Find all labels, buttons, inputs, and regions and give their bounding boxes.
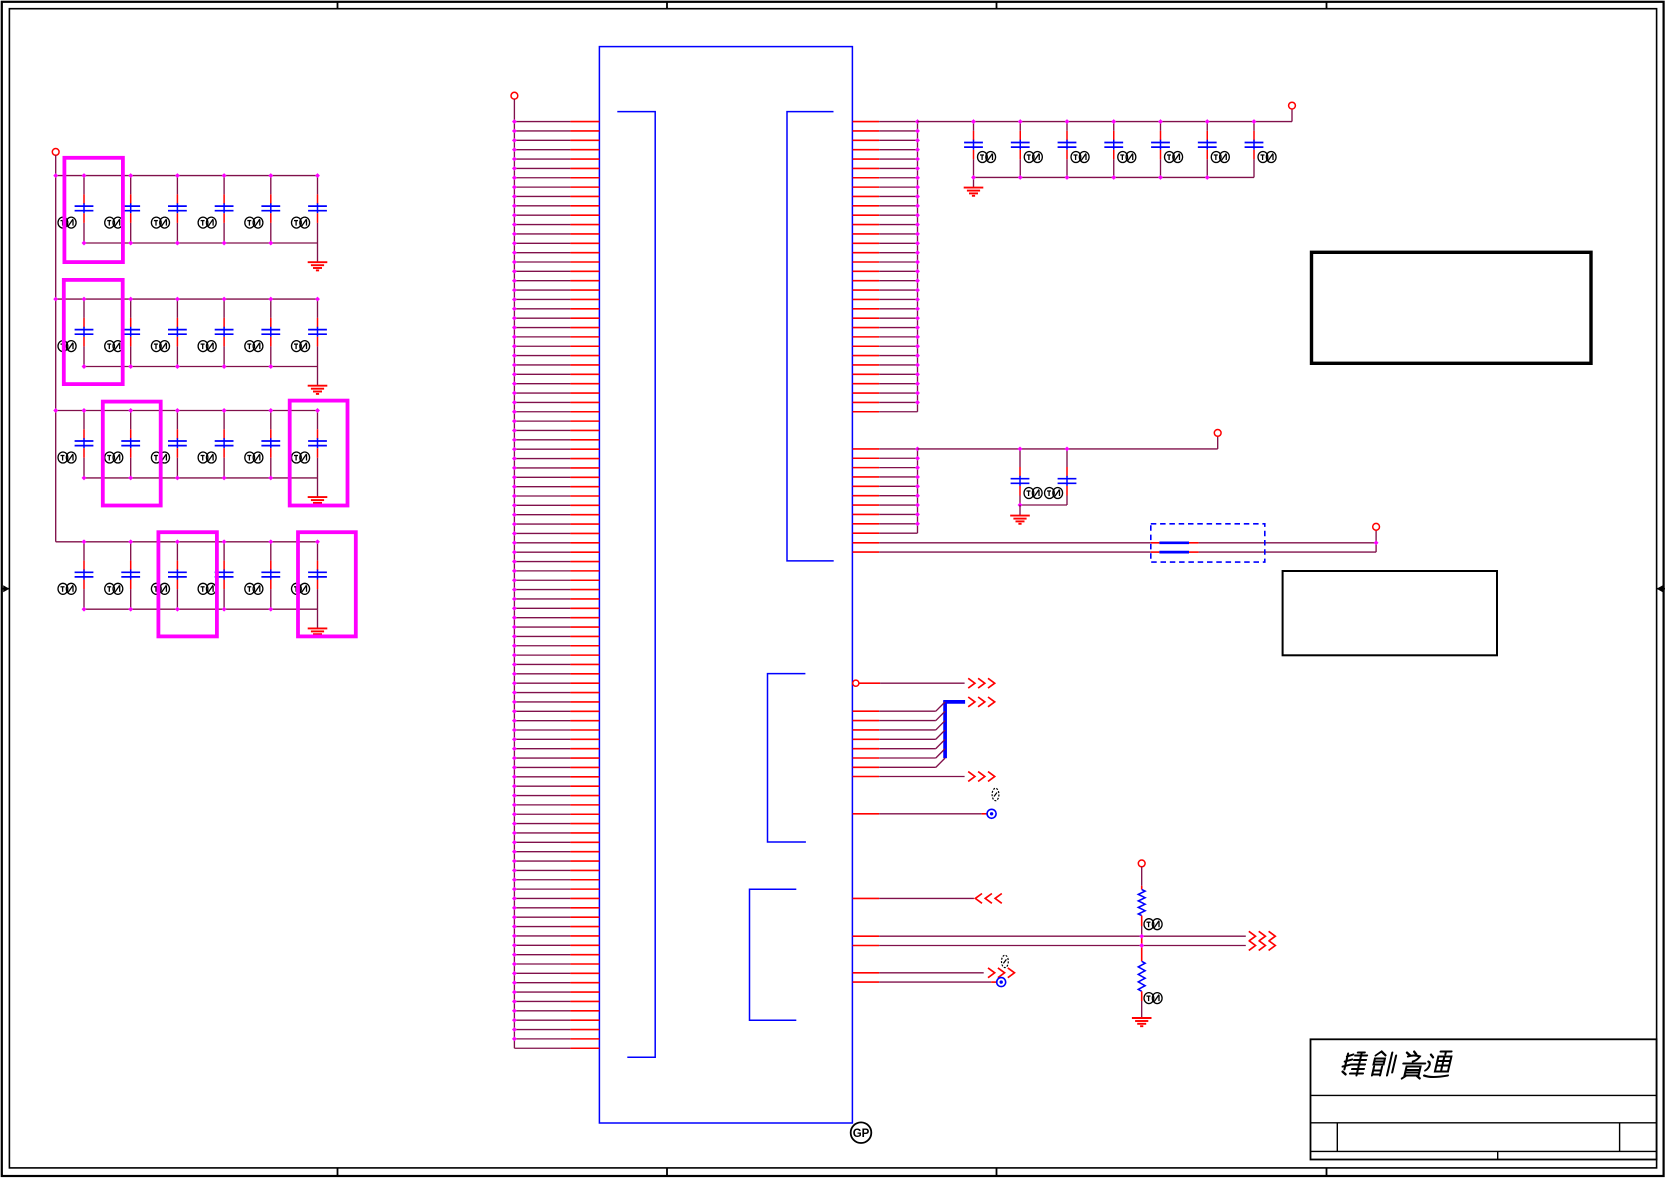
capacitor C19 bbox=[58, 542, 93, 609]
wire U1 left pin 38 bbox=[512, 465, 599, 470]
wire U1 right pin group1 12 bbox=[853, 222, 920, 227]
highlight box 5 bbox=[158, 532, 217, 636]
junction bank row3 feed bbox=[53, 408, 58, 413]
wire U1 left pin 40 bbox=[512, 484, 599, 489]
wire U1 right pin group1 31 bbox=[853, 400, 920, 405]
wire pair1 to filter bbox=[879, 542, 1151, 544]
wire U1 left pin 49 bbox=[512, 568, 599, 573]
wire right bus 2 vertical bbox=[917, 449, 919, 533]
IC U1 body outline bbox=[599, 47, 852, 1123]
wire U1 right pin group2 7 bbox=[853, 503, 920, 508]
junction C5 top bbox=[268, 173, 273, 178]
wire U1 right pin group1 7 bbox=[853, 175, 920, 180]
capacitor C109 bbox=[1045, 449, 1077, 505]
wire U1 left pin 7 bbox=[512, 175, 599, 180]
wire U1 left pin 30 bbox=[512, 391, 599, 396]
wire U1 left pin 82 bbox=[512, 877, 599, 882]
wire U1 right pin group3 6 bbox=[853, 749, 946, 758]
wire U1 left pin 60 bbox=[512, 671, 599, 676]
wire U1 left pin 83 bbox=[512, 887, 599, 892]
capacitor C11 bbox=[245, 299, 280, 366]
junction C22 bottom bbox=[222, 607, 227, 612]
capacitor C6 bbox=[292, 176, 327, 243]
highlight box 4 bbox=[290, 401, 348, 506]
wire U1 left pin 76 bbox=[512, 821, 599, 826]
junction C11 top bbox=[268, 297, 273, 302]
junction C8 bottom bbox=[128, 364, 133, 369]
wire U1 left pin 22 bbox=[512, 316, 599, 321]
wire U1 left pin 4 bbox=[512, 147, 599, 152]
title block company logotype bbox=[1340, 1052, 1454, 1079]
wire U1 right pin group1 9 bbox=[853, 194, 920, 199]
wire U1 left pin 80 bbox=[512, 859, 599, 864]
wire U1 left pin 32 bbox=[512, 409, 599, 414]
junction C105 bottom bbox=[1158, 175, 1163, 180]
wire U1 left pin 65 bbox=[512, 718, 599, 723]
wire U1 right pin long2 bbox=[853, 945, 1246, 947]
wire U1 left pin 9 bbox=[512, 194, 599, 199]
junction pair terminal bbox=[1374, 540, 1379, 545]
wire bank row1 top rail bbox=[56, 175, 318, 177]
junction C18 top bbox=[315, 408, 320, 413]
capacitor C24 bbox=[292, 542, 327, 609]
junction C8 top bbox=[128, 297, 133, 302]
capacitor C5 bbox=[245, 176, 280, 243]
wire bank row3 bottom rail bbox=[84, 477, 318, 479]
wire U1 right pin group1 29 bbox=[853, 381, 920, 386]
junction C104 bottom bbox=[1111, 175, 1116, 180]
junction C14 top bbox=[128, 408, 133, 413]
wire pair1 to terminal bbox=[1199, 542, 1377, 544]
wire U1 left pin 20 bbox=[512, 297, 599, 302]
wire bank row4 ground lead bbox=[317, 609, 319, 628]
wire U1 right pin group3 2 bbox=[853, 711, 946, 720]
wire bank row2 top rail bbox=[56, 298, 318, 300]
IC U1 inner right pin bracket 1 bbox=[787, 112, 834, 561]
wire U1 left pin 81 bbox=[512, 868, 599, 873]
ferrite bead FB2 bbox=[1151, 551, 1199, 553]
wire U1 left pin 94 bbox=[512, 990, 599, 995]
wire left bus vertical bbox=[513, 99, 515, 1048]
net label small glyph 2 bbox=[1002, 955, 1009, 967]
junction C9 top bbox=[175, 297, 180, 302]
junction C106 bottom bbox=[1205, 175, 1210, 180]
junction C5 bottom bbox=[268, 241, 273, 246]
junction C105 top bbox=[1158, 119, 1163, 124]
junction C2 bottom bbox=[128, 241, 133, 246]
bus group3 vertical bbox=[943, 701, 947, 759]
junction C15 top bbox=[175, 408, 180, 413]
highlight box 6 bbox=[298, 532, 356, 636]
wire U1 right pin group1 5 bbox=[853, 157, 920, 162]
off-page connector long2 bbox=[1249, 941, 1276, 951]
capacitor C16 bbox=[198, 411, 233, 478]
junction C3 top bbox=[175, 173, 180, 178]
wire U1 left pin 45 bbox=[512, 531, 599, 536]
wire U1 left pin 67 bbox=[512, 737, 599, 742]
wire U1 left pin 6 bbox=[512, 166, 599, 171]
capacitor C9 bbox=[151, 299, 186, 366]
wire U1 left pin 85 bbox=[512, 905, 599, 910]
wire U1 right pin group1 18 bbox=[853, 278, 920, 283]
wire U1 left pin 90 bbox=[512, 952, 599, 957]
capacitor C18 bbox=[292, 411, 327, 478]
off-page connector left row bbox=[975, 894, 1002, 904]
junction C20 bottom bbox=[128, 607, 133, 612]
wire U1 right pin chevron row bottom bbox=[853, 972, 984, 974]
wire U1 left pin 8 bbox=[512, 185, 599, 190]
wire bank row2 bottom rail bbox=[84, 366, 318, 368]
wire U1 left pin 69 bbox=[512, 756, 599, 761]
junction C13 bottom bbox=[82, 475, 87, 480]
wire bank row1 bottom rail bbox=[84, 242, 318, 244]
junction C104 top bbox=[1111, 119, 1116, 124]
wire R1 to R2 bbox=[1141, 916, 1143, 962]
wire U1 left pin 39 bbox=[512, 475, 599, 480]
capacitor C105 bbox=[1151, 122, 1183, 178]
wire U1 left pin 28 bbox=[512, 372, 599, 377]
junction bank row1 feed bbox=[53, 173, 58, 178]
wire U1 left pin 2 bbox=[512, 129, 599, 134]
bus group3 horizontal out bbox=[943, 700, 965, 704]
junction C19 bottom bbox=[82, 607, 87, 612]
wire U1 left pin 56 bbox=[512, 634, 599, 639]
net label small glyph 1 bbox=[992, 788, 999, 800]
off-page connector bus out bbox=[968, 697, 995, 707]
wire R2 to ground bbox=[1141, 991, 1143, 1018]
wire U1 left pin 19 bbox=[512, 288, 599, 293]
wire U1 right pin group1 28 bbox=[853, 372, 920, 377]
wire U1 left pin 26 bbox=[512, 353, 599, 358]
junction C24 top bbox=[315, 539, 320, 544]
wire ground lead mid right bbox=[1019, 505, 1021, 515]
capacitor C3 bbox=[151, 176, 186, 243]
wire U1 right pin group2 3 bbox=[853, 465, 920, 470]
wire U1 right pin group3 5 bbox=[853, 739, 946, 748]
junction C10 bottom bbox=[222, 364, 227, 369]
capacitor C106 bbox=[1198, 122, 1230, 178]
capacitor C23 bbox=[245, 542, 280, 609]
wire bank row1 ground lead bbox=[317, 243, 319, 262]
off-page connector row1 bbox=[968, 678, 995, 688]
dashed option box bbox=[1151, 524, 1265, 562]
wire U1 left pin 3 bbox=[512, 138, 599, 143]
junction C108 top bbox=[1018, 446, 1023, 451]
wire U1 right pin group1 24 bbox=[853, 334, 920, 339]
junction C3 bottom bbox=[175, 241, 180, 246]
wire U1 right pin group1 17 bbox=[853, 269, 920, 274]
wire U1 left pin 55 bbox=[512, 625, 599, 630]
border centre arrow left bbox=[1, 585, 9, 592]
wire U1 left pin 11 bbox=[512, 213, 599, 218]
wire U1 right pin long1 bbox=[853, 935, 1246, 937]
wire U1 left pin 95 bbox=[512, 999, 599, 1004]
IC U1 marker GP bbox=[851, 1122, 872, 1143]
wire U1 left pin 14 bbox=[512, 241, 599, 246]
junction C14 bottom bbox=[128, 475, 133, 480]
junction C9 bottom bbox=[175, 364, 180, 369]
junction C106 top bbox=[1205, 119, 1210, 124]
label R2 bbox=[1144, 993, 1162, 1004]
junction C4 bottom bbox=[222, 241, 227, 246]
wire U1 left pin 21 bbox=[512, 306, 599, 311]
test point target 1 bbox=[987, 809, 996, 818]
junction C22 top bbox=[222, 539, 227, 544]
capacitor C102 bbox=[1011, 122, 1043, 178]
wire U1 left pin 10 bbox=[512, 203, 599, 208]
wire left bank feed vertical bbox=[55, 155, 57, 542]
wire U1 left pin 42 bbox=[512, 503, 599, 508]
IC U1 inner left pin bracket bbox=[617, 112, 655, 1058]
wire U1 right pin group2 2 bbox=[853, 456, 920, 461]
IC U1 inner right pin bracket 2 bbox=[768, 674, 806, 842]
wire pair2 riser bbox=[1375, 530, 1377, 552]
junction C4 top bbox=[222, 173, 227, 178]
capacitor C21 bbox=[151, 542, 186, 609]
wire U1 right pin group3 4 bbox=[853, 730, 946, 739]
wire U1 right pin group1 15 bbox=[853, 250, 920, 255]
junction C2 top bbox=[128, 173, 133, 178]
capacitor C14 bbox=[105, 411, 140, 478]
wire U1 right pin group1 1 bbox=[853, 119, 920, 124]
wire U1 right pin group1 23 bbox=[853, 325, 920, 330]
wire U1 left pin 77 bbox=[512, 831, 599, 836]
wire U1 left pin 88 bbox=[512, 933, 599, 938]
junction ground top right bbox=[971, 175, 976, 180]
highlight box 3 bbox=[103, 402, 161, 506]
wire U1 right pin group2 4 bbox=[853, 475, 920, 480]
junction C19 top bbox=[82, 539, 87, 544]
capacitor C1 bbox=[58, 176, 93, 243]
wire U1 right pin group1 26 bbox=[853, 353, 920, 358]
junction C1 bottom bbox=[82, 241, 87, 246]
title block frame bbox=[1311, 1039, 1657, 1159]
wire U1 left pin 61 bbox=[512, 681, 599, 686]
wire U1 right pin group1 10 bbox=[853, 203, 920, 208]
ground bank row4 bbox=[308, 628, 328, 636]
capacitor C108 bbox=[1011, 449, 1043, 505]
wire U1 left pin 52 bbox=[512, 597, 599, 602]
wire U1 right pin group2 8 bbox=[853, 512, 920, 517]
terminal pullup top bbox=[1138, 860, 1145, 867]
wire U1 right pin group1 27 bbox=[853, 363, 920, 368]
wire U1 left pin 12 bbox=[512, 222, 599, 227]
junction C12 top bbox=[315, 297, 320, 302]
wire U1 left pin 47 bbox=[512, 550, 599, 555]
ground mid right bbox=[1010, 516, 1030, 524]
junction C15 bottom bbox=[175, 475, 180, 480]
wire U1 left pin 37 bbox=[512, 456, 599, 461]
capacitor C7 bbox=[58, 299, 93, 366]
wire U1 left pin 51 bbox=[512, 587, 599, 592]
wire U1 left pin 74 bbox=[512, 802, 599, 807]
wire U1 left pin 13 bbox=[512, 231, 599, 236]
capacitor C4 bbox=[198, 176, 233, 243]
wire U1 right pin group1 22 bbox=[853, 316, 920, 321]
terminal pair right bbox=[1373, 523, 1380, 530]
junction C16 bottom bbox=[222, 475, 227, 480]
wire U1 left pin 29 bbox=[512, 381, 599, 386]
highlight box 1 bbox=[64, 158, 123, 262]
wire U1 right pin group1 14 bbox=[853, 241, 920, 246]
wire C109 bottom to C108 bbox=[1020, 504, 1067, 506]
wire U1 left pin 96 bbox=[512, 1008, 599, 1013]
wire U1 left pin 89 bbox=[512, 943, 599, 948]
wire U1 left pin 1 bbox=[512, 119, 599, 124]
wire U1 left pin 99 bbox=[512, 1036, 599, 1041]
wire bank row2 ground lead bbox=[317, 367, 319, 386]
wire U1 left pin 97 bbox=[512, 1018, 599, 1023]
wire U1 left pin 17 bbox=[512, 269, 599, 274]
wire U1 right pin group1 16 bbox=[853, 260, 920, 265]
capacitor C20 bbox=[105, 542, 140, 609]
wire U1 left pin 84 bbox=[512, 896, 599, 901]
junction C23 bottom bbox=[268, 607, 273, 612]
wire U1 right pin group1 3 bbox=[853, 138, 920, 143]
wire U1 right pin group1 30 bbox=[853, 391, 920, 396]
capacitor C101 bbox=[964, 122, 996, 178]
wire pair2 to terminal bbox=[1199, 551, 1377, 553]
wire U1 left pin 71 bbox=[512, 774, 599, 779]
wire U1 left pin 54 bbox=[512, 615, 599, 620]
terminal VCC left bank bbox=[52, 149, 59, 156]
wire bank row4 bottom rail bbox=[84, 608, 318, 610]
off-page connector row group3 8 bbox=[968, 772, 995, 782]
off-page connector long1 bbox=[1249, 931, 1276, 941]
junction C101 top bbox=[971, 119, 976, 124]
annotation box 1 bbox=[1312, 252, 1592, 363]
wire U1 left pin 73 bbox=[512, 793, 599, 798]
junction C102 bottom bbox=[1018, 175, 1023, 180]
capacitor C104 bbox=[1104, 122, 1136, 178]
wire U1 left pin 91 bbox=[512, 962, 599, 967]
wire U1 left pin 50 bbox=[512, 578, 599, 583]
wire U1 left pin 34 bbox=[512, 428, 599, 433]
wire U1 left pin 15 bbox=[512, 250, 599, 255]
capacitor C22 bbox=[198, 542, 233, 609]
highlight box 2 bbox=[64, 280, 123, 384]
wire ground lead top right bbox=[973, 177, 975, 187]
wire U1 left pin 66 bbox=[512, 728, 599, 733]
IC U1 inner right pin bracket 3 bbox=[750, 889, 797, 1020]
wire U1 left pin 33 bbox=[512, 419, 599, 424]
wire U1 left pin 68 bbox=[512, 746, 599, 751]
junction C1 top bbox=[82, 173, 87, 178]
wire U1 right pin group1 2 bbox=[853, 129, 920, 134]
junction C107 top bbox=[1252, 119, 1257, 124]
wire U1 right pin target row 2 bbox=[853, 981, 997, 983]
wire U1 right pin group1 6 bbox=[853, 166, 920, 171]
wire U1 right pin group1 20 bbox=[853, 297, 920, 302]
wire U1 left pin 75 bbox=[512, 812, 599, 817]
wire U1 right pin group1 4 bbox=[853, 147, 920, 152]
wire U1 left pin 23 bbox=[512, 325, 599, 330]
wire U1 right pin group3 1 bbox=[853, 702, 946, 711]
terminal VCC left pin bus bbox=[511, 92, 518, 99]
wire U1 right pin group1 11 bbox=[853, 213, 920, 218]
wire U1 left pin 86 bbox=[512, 915, 599, 920]
wire bank row3 top rail bbox=[56, 410, 318, 412]
wire U1 right pair1 pin bbox=[853, 542, 880, 544]
terminal VCC top right bbox=[1289, 102, 1296, 109]
resistor R2 bbox=[1138, 961, 1145, 991]
capacitor C13 bbox=[58, 411, 93, 478]
wire bank row3 ground lead bbox=[317, 478, 319, 497]
junction C21 bottom bbox=[175, 607, 180, 612]
junction C20 top bbox=[128, 539, 133, 544]
wire U1 left pin 92 bbox=[512, 971, 599, 976]
ground top right bbox=[964, 188, 984, 196]
wire terminal stub mid right bbox=[1217, 436, 1219, 449]
wire U1 left pin 78 bbox=[512, 840, 599, 845]
wire U1 right pin group2 1 bbox=[853, 446, 920, 451]
wire U1 right pin target row 1 bbox=[853, 813, 987, 815]
wire U1 left pin 25 bbox=[512, 344, 599, 349]
wire bank row4 top rail bbox=[56, 541, 318, 543]
junction long1 R bbox=[1139, 934, 1144, 939]
wire U1 right pair2 pin bbox=[853, 551, 880, 553]
wire pair2 to filter bbox=[879, 551, 1151, 553]
wire U1 right pin group3 3 bbox=[853, 721, 946, 730]
junction C13 top bbox=[82, 408, 87, 413]
wire U1 left pin 79 bbox=[512, 849, 599, 854]
junction C11 bottom bbox=[268, 364, 273, 369]
capacitor C8 bbox=[105, 299, 140, 366]
junction C7 top bbox=[82, 297, 87, 302]
wire U1 left pin 31 bbox=[512, 400, 599, 405]
wire VCC rail mid right bbox=[918, 448, 1218, 450]
junction C21 top bbox=[175, 539, 180, 544]
capacitor C103 bbox=[1058, 122, 1090, 178]
capacitor C15 bbox=[151, 411, 186, 478]
capacitor C107 bbox=[1245, 122, 1277, 178]
capacitor C2 bbox=[105, 176, 140, 243]
junction long2 R bbox=[1139, 943, 1144, 948]
off-page connector bottom bbox=[988, 968, 1015, 978]
resistor R1 bbox=[1138, 890, 1145, 916]
wire U1 right pin group1 21 bbox=[853, 306, 920, 311]
wire U1 left pin 18 bbox=[512, 278, 599, 283]
junction C10 top bbox=[222, 297, 227, 302]
wire U1 left pin 5 bbox=[512, 157, 599, 162]
wire U1 left pin 48 bbox=[512, 559, 599, 564]
wire U1 left pin 98 bbox=[512, 1027, 599, 1032]
wire U1 left pin 100 bbox=[514, 1047, 599, 1049]
wire U1 left pin 44 bbox=[512, 522, 599, 527]
wire U1 right pin group2 10 bbox=[853, 532, 918, 534]
wire U1 right pin no-connect circle row bbox=[853, 680, 965, 686]
junction C103 top bbox=[1065, 119, 1070, 124]
wire U1 left pin 70 bbox=[512, 765, 599, 770]
junction C17 bottom bbox=[268, 475, 273, 480]
wire U1 left pin 87 bbox=[512, 924, 599, 929]
wire U1 left pin 46 bbox=[512, 540, 599, 545]
wire terminal stub top right bbox=[1291, 109, 1293, 122]
wire U1 left pin 59 bbox=[512, 662, 599, 667]
junction C108 bottom bbox=[1018, 503, 1023, 508]
wire U1 left pin 62 bbox=[512, 690, 599, 695]
wire U1 right pin group1 13 bbox=[853, 231, 920, 236]
wire U1 left pin 93 bbox=[512, 980, 599, 985]
wire U1 right pin group3 7 bbox=[853, 758, 946, 767]
wire U1 right pin group2 9 bbox=[853, 521, 920, 526]
wire U1 left pin 58 bbox=[512, 653, 599, 658]
wire pullup top lead bbox=[1141, 867, 1143, 890]
junction bank row2 feed bbox=[53, 297, 58, 302]
ground bank row1 bbox=[308, 262, 328, 270]
junction C23 top bbox=[268, 539, 273, 544]
annotation box 2 bbox=[1283, 571, 1497, 655]
